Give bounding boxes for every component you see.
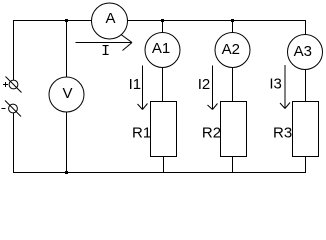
wire branch2 top: [232, 20, 234, 33]
minus sign: [2, 108, 6, 110]
wire branch3 bottom: [305, 156, 307, 173]
svg-text:I3: I3: [269, 76, 282, 93]
junction node top branch1: [161, 19, 164, 22]
resistor R2: [221, 102, 247, 157]
ammeter A3: [288, 35, 323, 70]
svg-text:R1: R1: [132, 125, 151, 142]
svg-text:R2: R2: [202, 125, 221, 142]
svg-text:A1: A1: [152, 40, 170, 57]
current arrow I: [76, 35, 133, 51]
resistor R3: [293, 102, 319, 157]
wire left upper segment: [13, 20, 15, 80]
ammeter A1: [145, 33, 180, 68]
resistor R1: [151, 102, 177, 157]
ammeter A: [92, 3, 128, 39]
wire branch2 mid: [232, 67, 234, 102]
wire V branch upper: [66, 20, 68, 78]
current arrow I2: [208, 66, 218, 110]
wire branch3 top: [305, 20, 307, 35]
junction node top V: [65, 19, 68, 22]
wire branch1 bottom: [163, 156, 165, 173]
wire branch1 mid: [162, 67, 164, 102]
svg-text:I2: I2: [198, 76, 211, 93]
svg-text:A3: A3: [294, 43, 312, 60]
current arrow I3: [280, 65, 290, 109]
svg-text:R3: R3: [273, 125, 292, 142]
wire left lower segment: [13, 113, 15, 173]
wire V branch lower: [66, 111, 68, 173]
wire top rail: [13, 20, 306, 22]
ammeter A2: [215, 33, 250, 68]
svg-text:A: A: [105, 10, 115, 27]
junction node bottom V: [65, 171, 68, 174]
terminal plus: [9, 80, 18, 89]
wire branch1 top: [162, 20, 164, 33]
current arrow I1: [138, 66, 148, 110]
svg-text:V: V: [62, 85, 72, 102]
junction node top branch2: [231, 19, 234, 22]
wire branch3 mid: [305, 70, 307, 103]
voltmeter V: [49, 77, 84, 112]
terminal minus: [9, 104, 18, 113]
svg-text:I1: I1: [129, 76, 142, 93]
svg-text:I: I: [101, 43, 110, 60]
wire bottom rail: [13, 172, 306, 174]
wire branch2 bottom: [232, 156, 234, 173]
plus sign: [3, 82, 8, 87]
svg-text:A2: A2: [222, 41, 240, 58]
